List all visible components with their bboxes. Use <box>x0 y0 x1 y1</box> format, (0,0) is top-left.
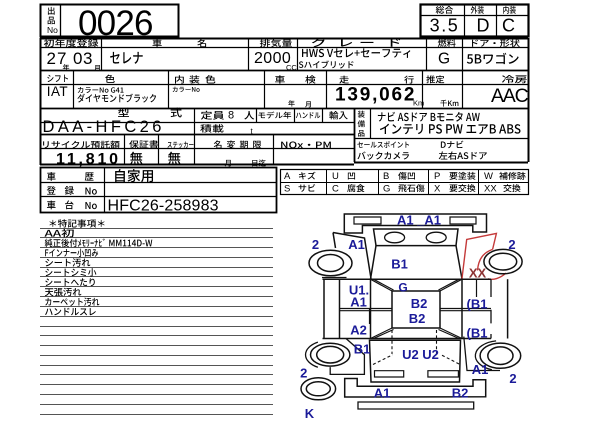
svg-text:(B1: (B1 <box>467 297 488 312</box>
svg-text:B1: B1 <box>391 257 408 272</box>
svg-text:(B1: (B1 <box>467 326 488 341</box>
svg-text:D: D <box>477 16 490 36</box>
windshield <box>371 246 463 279</box>
svg-text:XX: XX <box>484 183 497 194</box>
svg-text:B2: B2 <box>409 311 426 326</box>
svg-text:X: X <box>434 183 441 194</box>
front-right wheel <box>484 249 522 273</box>
svg-text:S: S <box>284 183 290 194</box>
front-left wheel <box>309 250 352 276</box>
svg-text:P: P <box>434 171 440 182</box>
svg-text:No: No <box>47 25 58 35</box>
svg-text:G: G <box>438 50 450 67</box>
left front fender <box>333 233 371 279</box>
rear under spoiler <box>358 402 474 409</box>
auction sheet table <box>41 5 179 37</box>
svg-text:8: 8 <box>228 110 234 122</box>
front bumper trim right <box>450 217 476 224</box>
spare wheel K <box>301 378 336 400</box>
roof inner panel B2 <box>392 291 440 328</box>
svg-text:K: K <box>305 406 315 421</box>
left headlight <box>385 232 405 243</box>
svg-text:A1 _A1: A1 _A1 <box>397 213 441 228</box>
svg-text:W: W <box>484 171 493 182</box>
svg-text:B2: B2 <box>411 296 428 311</box>
tailgate license plate <box>375 371 404 377</box>
rear-left wheel arch arc <box>306 342 318 367</box>
right front fender XX replaced (red outline) <box>462 233 496 278</box>
svg-text:U: U <box>332 171 339 182</box>
svg-text:CC: CC <box>286 63 297 72</box>
svg-text:2: 2 <box>508 237 515 252</box>
rear-right wheel <box>480 343 521 368</box>
svg-text:0026: 0026 <box>78 4 153 43</box>
tailgate garnish <box>428 371 459 377</box>
svg-text:A: A <box>284 171 291 182</box>
svg-text:3.5: 3.5 <box>430 16 460 36</box>
svg-text:2: 2 <box>312 237 319 252</box>
svg-text:A1: A1 <box>374 386 391 401</box>
svg-text:2: 2 <box>509 371 516 386</box>
svg-text:C: C <box>332 183 339 194</box>
rear bumper <box>345 379 486 398</box>
svg-text:XX: XX <box>469 266 487 281</box>
tailgate <box>370 340 461 382</box>
svg-text:B2: B2 <box>452 386 469 401</box>
svg-text:139,062: 139,062 <box>335 85 416 106</box>
svg-text:11,810: 11,810 <box>56 151 121 168</box>
svg-text:2: 2 <box>300 366 307 381</box>
svg-text:IAT: IAT <box>47 84 68 99</box>
svg-text:A1: A1 <box>348 237 365 252</box>
svg-text:U2 U2: U2 U2 <box>402 347 439 362</box>
svg-text:03: 03 <box>73 49 93 68</box>
roof and side panels <box>323 278 492 280</box>
svg-text:B: B <box>383 171 389 182</box>
svg-text:A2: A2 <box>350 323 367 338</box>
rear-right quarter panel <box>464 337 500 371</box>
svg-text:G: G <box>383 183 390 194</box>
svg-text:HFC26-258983: HFC26-258983 <box>108 197 219 214</box>
front bumper <box>344 214 486 233</box>
svg-text:A1: A1 <box>472 362 489 377</box>
right headlight <box>426 232 446 243</box>
svg-text:AAC: AAC <box>491 85 529 107</box>
hood cowl panel <box>374 229 459 246</box>
rear-left wheel <box>311 343 350 366</box>
svg-text:Km: Km <box>413 99 424 108</box>
svg-text:B1: B1 <box>354 342 371 357</box>
svg-text:C: C <box>502 16 515 36</box>
rear-left quarter panel <box>330 339 364 375</box>
svg-text:DAA-HFC26: DAA-HFC26 <box>43 118 165 136</box>
svg-text:G: G <box>398 281 407 295</box>
svg-text:A1: A1 <box>350 295 367 310</box>
rear-right wheel arch arc <box>475 341 496 370</box>
front bumper trim left <box>354 217 381 224</box>
